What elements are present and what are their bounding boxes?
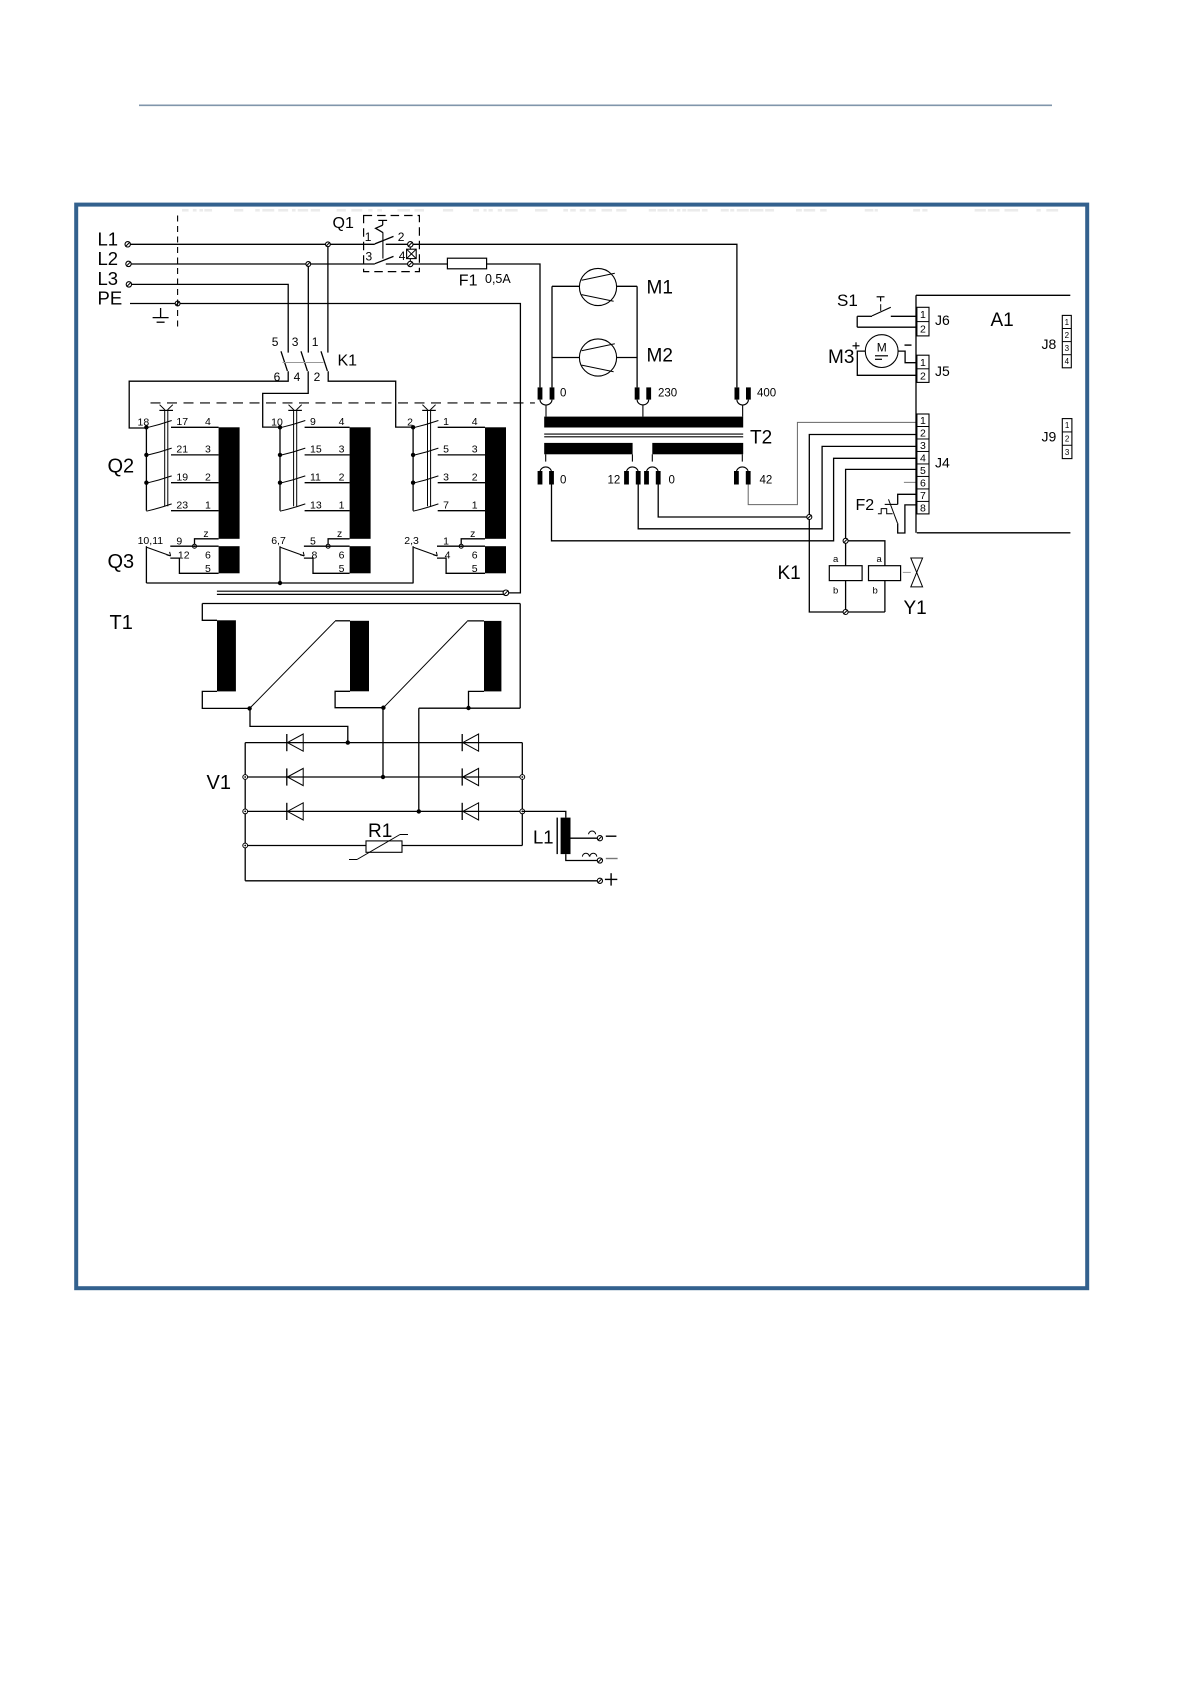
svg-text:8: 8 (920, 502, 926, 514)
R1 row wire (245, 845, 522, 847)
svg-text:23: 23 (176, 499, 188, 511)
svg-text:1: 1 (443, 416, 449, 428)
svg-text:5: 5 (920, 465, 926, 477)
terminal minus1 (597, 836, 602, 841)
svg-text:1: 1 (365, 230, 372, 244)
wire 12 to J4-3 (638, 446, 917, 528)
T1 frame bottom (419, 707, 520, 709)
wire M3 plus to J5-2 (857, 351, 917, 375)
F2 thermal element (878, 509, 893, 514)
Q2 bank3 tap 5-3 (411, 444, 485, 458)
svg-text:13: 13 (310, 499, 322, 511)
Q2 bank1 tap 17-4 (138, 416, 219, 430)
Q1 actuator (376, 220, 388, 258)
svg-text:1: 1 (205, 499, 211, 511)
svg-text:17: 17 (176, 416, 188, 428)
diode V1-6 (462, 803, 478, 820)
svg-text:2: 2 (920, 370, 926, 382)
M3 plus mark (853, 342, 860, 349)
inductor L1 (561, 818, 571, 855)
node 0b junction (807, 515, 812, 520)
node V1 row3 right (520, 809, 525, 814)
svg-text:5: 5 (272, 335, 279, 349)
svg-text:12: 12 (608, 475, 621, 487)
wire V1 to L1 (522, 811, 566, 817)
svg-text:3: 3 (1065, 344, 1070, 353)
node V1 row2 left (243, 775, 248, 780)
Q2 bank2 tap 15-3 (278, 444, 350, 458)
T2 primary plug 400 (735, 387, 777, 416)
svg-text:5: 5 (205, 563, 211, 575)
svg-text:PE: PE (98, 287, 123, 308)
T1 leg2 winding (335, 621, 383, 708)
Q2 bank3 shaft (422, 405, 436, 507)
svg-text:M: M (877, 341, 887, 355)
T1 leg3 winding (467, 621, 484, 708)
wire L1 tap minus1 (571, 837, 598, 839)
svg-text:L2: L2 (98, 248, 119, 269)
wire T1 leg2 to V1 (382, 708, 384, 777)
wire M1 left (552, 285, 579, 287)
svg-text:18: 18 (138, 416, 150, 428)
header rule (139, 104, 1052, 106)
node T1 leg2 (381, 706, 385, 710)
svg-text:J4: J4 (935, 455, 950, 471)
T2 primary plug 230 (635, 387, 677, 416)
wire J4-2 to coil return (809, 435, 917, 613)
connector J9 (1062, 419, 1072, 459)
node PE (175, 301, 180, 306)
svg-text:9: 9 (176, 535, 182, 547)
svg-text:4: 4 (920, 452, 926, 464)
svg-text:b: b (873, 586, 878, 597)
svg-text:3: 3 (920, 440, 926, 452)
S1 actuator (877, 297, 885, 311)
svg-text:2: 2 (1065, 331, 1070, 340)
terminal L3 (126, 282, 131, 287)
svg-text:1: 1 (472, 499, 478, 511)
motor M1 (579, 268, 616, 305)
Q3 bank1 tap 12 (170, 549, 218, 574)
diode V1-1 (287, 734, 303, 751)
node V1 row3 input (417, 809, 421, 813)
T2 secondary plug 0b (644, 454, 675, 486)
T2 secondary plug 42 (734, 454, 772, 486)
svg-text:z: z (337, 528, 342, 540)
wire F2 to J4-8 (898, 505, 917, 533)
Q3 bank3 z tap (459, 528, 485, 548)
wire PE (130, 304, 520, 593)
wire J4-7 to F2 (898, 494, 917, 504)
svg-text:a: a (877, 554, 883, 565)
Q2 linkage dashed (151, 402, 535, 404)
connector J8 (1062, 315, 1071, 367)
minus1 sign (606, 835, 617, 837)
ground (153, 308, 169, 322)
svg-text:3: 3 (339, 444, 345, 456)
svg-text:z: z (470, 528, 475, 540)
plus sign (605, 873, 617, 885)
wire L2 from Q1 to F1 (386, 263, 448, 265)
V1 left bus (244, 743, 246, 881)
svg-text:T2: T2 (750, 428, 772, 449)
svg-text:Q3: Q3 (108, 551, 135, 573)
diode V1-2 (287, 768, 303, 785)
svg-text:2: 2 (1065, 434, 1070, 443)
wire M2 left (552, 357, 579, 359)
Q1 terminal 4 (408, 261, 413, 266)
T1 frame right (519, 604, 521, 709)
motor M3 (865, 335, 898, 368)
wire K1-2 to Q2 bank3 (328, 371, 413, 427)
Q2 bank3 tap 7-1 (413, 499, 485, 511)
node V1 row3 left (243, 809, 248, 814)
svg-text:1: 1 (920, 415, 926, 427)
svg-text:2: 2 (920, 428, 926, 440)
T1 delta link 1-2 (250, 621, 336, 708)
svg-text:J8: J8 (1042, 336, 1057, 352)
svg-text:5: 5 (339, 563, 345, 575)
Q1 terminal 2 (408, 242, 413, 247)
svg-text:5: 5 (310, 535, 316, 547)
svg-text:V1: V1 (207, 772, 231, 794)
wire T1 leg1 to V1 (250, 708, 348, 742)
wire M branch left (551, 286, 553, 387)
wire L2 (131, 263, 375, 265)
svg-text:19: 19 (176, 471, 188, 483)
T2 primary winding (544, 417, 743, 428)
svg-text:1: 1 (312, 335, 319, 349)
svg-text:2,3: 2,3 (404, 535, 419, 547)
svg-text:T1: T1 (110, 612, 133, 634)
svg-text:2: 2 (398, 230, 405, 244)
connector J6 (917, 307, 929, 336)
node coil return (843, 610, 848, 615)
svg-text:3: 3 (472, 444, 478, 456)
wire L1 drop to K1 (327, 247, 329, 353)
svg-text:5: 5 (472, 563, 478, 575)
terminal plus (597, 878, 602, 883)
svg-text:z: z (203, 528, 208, 540)
svg-text:3: 3 (292, 335, 299, 349)
wire M2 right (617, 357, 638, 359)
svg-text:1: 1 (339, 499, 345, 511)
shield bus to PE (217, 591, 505, 594)
wire 0a to J4-4 (552, 458, 917, 541)
wire K1-6 to Q2 bank1 (129, 371, 288, 428)
svg-text:3: 3 (443, 471, 449, 483)
Q2 bank2 tap 13-1 (280, 499, 350, 511)
wire M1 right (617, 285, 638, 287)
Q3 bank1 z tap (193, 528, 219, 548)
Q3 bank1 selector (138, 535, 219, 583)
inductor L1 core line (556, 818, 558, 855)
terminal minus2 (597, 858, 602, 863)
svg-text:Y1: Y1 (904, 598, 927, 619)
svg-text:6: 6 (274, 370, 281, 384)
svg-text:L1: L1 (533, 827, 554, 848)
Q2 bank3 tap 1-4 (407, 416, 485, 430)
wire 0b to J4-2 (658, 485, 807, 518)
svg-text:F2: F2 (856, 497, 875, 514)
svg-text:9: 9 (310, 416, 316, 428)
svg-text:1: 1 (920, 357, 926, 369)
svg-text:11: 11 (310, 471, 321, 483)
svg-text:4: 4 (399, 249, 406, 263)
wire L2 drop to K1 (307, 266, 309, 352)
svg-text:F1: F1 (459, 273, 478, 290)
A1 left edge (915, 295, 917, 533)
svg-text:J5: J5 (935, 363, 950, 379)
svg-text:8: 8 (312, 549, 318, 561)
wire DC plus (245, 880, 597, 882)
svg-text:a: a (833, 554, 839, 565)
svg-text:4: 4 (205, 416, 211, 428)
breaker Q1 dashed box (364, 216, 420, 272)
svg-text:42: 42 (760, 475, 773, 487)
V1 right bus (521, 743, 523, 846)
T1 frame top (202, 603, 520, 605)
svg-text:3: 3 (1065, 448, 1070, 457)
T1 leg3 core (484, 621, 501, 692)
node T1 leg1 (247, 706, 251, 710)
wire M branch right (636, 286, 638, 387)
connector J5 (917, 355, 929, 382)
node Q3 common (278, 581, 282, 585)
Q2 bank1 shaft (159, 405, 173, 507)
svg-text:4: 4 (445, 549, 451, 561)
Q2 bank2 tap 9-4 (271, 416, 349, 430)
motor M2 (579, 339, 616, 376)
T2 secondary winding b (652, 443, 743, 454)
svg-text:1: 1 (443, 535, 449, 547)
svg-text:6: 6 (205, 549, 211, 561)
svg-text:L3: L3 (98, 268, 119, 289)
wire L1 (131, 243, 375, 245)
Q3 bank2 z tap (326, 528, 350, 548)
minus2 sign (606, 858, 618, 860)
wire coil feed to Y1 (848, 541, 885, 566)
Q3 bank1 core (219, 546, 240, 573)
svg-text:4: 4 (1065, 357, 1070, 366)
diode V1-5 (462, 768, 478, 785)
svg-text:1: 1 (1065, 318, 1070, 327)
svg-text:K1: K1 (338, 353, 358, 370)
wire K1 coil out (845, 581, 847, 612)
wire T1 leg3 to V1 (418, 708, 420, 811)
svg-text:2: 2 (339, 471, 345, 483)
S1 contact blade (872, 307, 891, 316)
svg-text:K1: K1 (778, 563, 801, 584)
Q2 bank1 tap 23-1 (146, 499, 218, 511)
node V1 row2 right (520, 775, 525, 780)
valve Y1 symbol (903, 558, 923, 587)
svg-text:S1: S1 (837, 291, 858, 310)
K1 contact 5-6 (272, 335, 288, 384)
Q3 bank3 tap 4 (437, 549, 485, 574)
svg-text:6,7: 6,7 (271, 535, 286, 547)
wire M3 minus to J5-1 (898, 351, 917, 363)
Q3 bank3 core (485, 546, 506, 573)
svg-text:6: 6 (920, 477, 926, 489)
svg-text:6: 6 (339, 549, 345, 561)
ripple mark 2 (582, 853, 596, 856)
coil K1 (829, 566, 862, 581)
node L2-K1 (306, 262, 311, 267)
svg-text:2: 2 (205, 471, 211, 483)
wire Q3 common (146, 582, 413, 584)
svg-text:J9: J9 (1042, 429, 1057, 445)
Q3 bank2 core (350, 546, 371, 573)
diode V1-3 (287, 803, 303, 820)
lamp in Q1 (407, 247, 417, 261)
Q3 bank2 tap 8 (304, 549, 350, 574)
Q2 bank2 selector bus (279, 427, 281, 510)
K1 contact 3-4 (292, 335, 308, 384)
svg-text:6: 6 (472, 549, 478, 561)
Q2 bank2 shaft (288, 405, 302, 507)
svg-text:4: 4 (339, 416, 345, 428)
ripple mark 1 (589, 831, 596, 834)
T1 delta link 2-3 (383, 621, 467, 707)
svg-text:2: 2 (472, 471, 478, 483)
svg-text:Q1: Q1 (333, 215, 354, 232)
wire F1 to T2 0 (487, 264, 540, 387)
T2 secondary plug 0a (538, 454, 567, 486)
svg-text:5: 5 (443, 444, 449, 456)
svg-text:400: 400 (757, 388, 776, 400)
svg-text:b: b (833, 586, 838, 597)
Q2 bank1 selector bus (145, 427, 147, 510)
svg-text:M1: M1 (647, 277, 673, 298)
wire L3 (131, 284, 288, 352)
svg-text:M2: M2 (647, 345, 673, 366)
svg-text:7: 7 (443, 499, 449, 511)
wire Y1 coil out (884, 581, 886, 612)
A1 bottom edge (917, 532, 1071, 534)
svg-text:7: 7 (920, 490, 926, 502)
connector J4 (917, 414, 929, 514)
T2 primary plug 0 (538, 387, 567, 416)
node T1 leg3 (466, 706, 470, 710)
wire return to Y1 (848, 611, 885, 613)
svg-text:230: 230 (658, 388, 677, 400)
svg-text:4: 4 (294, 370, 301, 384)
node L1-K1 (326, 242, 331, 247)
shield bus terminal (503, 590, 509, 596)
wire J4-5 to coils (846, 469, 917, 565)
node R1 left (243, 843, 248, 848)
A1 top edge (916, 294, 1070, 296)
node V1 row2 input (381, 775, 385, 779)
svg-text:3: 3 (205, 444, 211, 456)
terminal L2 (126, 261, 131, 266)
svg-text:L1: L1 (98, 229, 119, 250)
T2 core (544, 434, 743, 437)
node V1 row1 input (346, 740, 350, 744)
Q3 bank2 selector (271, 535, 349, 583)
Q2 bank1 tap 21-3 (144, 444, 218, 458)
V1 phase row 3 (245, 810, 522, 812)
fuse F1 (447, 258, 486, 269)
svg-text:A1: A1 (991, 310, 1014, 331)
svg-text:1: 1 (920, 309, 926, 321)
Q2 bank1 core (219, 427, 240, 539)
svg-text:M3: M3 (828, 347, 854, 368)
svg-text:Q2: Q2 (108, 456, 135, 478)
svg-text:R1: R1 (368, 821, 392, 842)
S1 wiring (857, 316, 917, 327)
wire L1 to T2 400 (386, 244, 737, 387)
svg-text:10,11: 10,11 (138, 535, 164, 547)
svg-text:12: 12 (178, 549, 190, 561)
svg-text:21: 21 (176, 444, 188, 456)
svg-text:0: 0 (669, 475, 675, 487)
Q1 contact 3-4 (375, 256, 394, 263)
Q2 bank2 tap 11-2 (278, 471, 350, 485)
page frame (76, 205, 1087, 1289)
coil Y1 (869, 566, 901, 581)
V1 phase row 2 (245, 776, 522, 778)
svg-text:0,5A: 0,5A (485, 272, 511, 286)
Q2 bank3 core (485, 427, 506, 539)
K1 linkage (283, 362, 324, 364)
svg-text:2: 2 (314, 370, 321, 384)
T1 leg2 core (350, 621, 369, 692)
stub J4-6 (904, 481, 917, 483)
F2 contact (885, 499, 898, 523)
Q2 bank1 tap 19-2 (144, 471, 218, 485)
scan artifact strip (182, 209, 1058, 212)
svg-text:2: 2 (920, 324, 926, 336)
resistor R1 (349, 835, 408, 860)
Q2 bank3 tap 3-2 (411, 471, 485, 485)
svg-text:4: 4 (472, 416, 478, 428)
diode V1-4 (462, 734, 478, 751)
boundary dashed line (177, 216, 179, 328)
Q1 contact 1-2 (375, 236, 394, 244)
svg-text:0: 0 (560, 388, 566, 400)
svg-text:1: 1 (1065, 421, 1070, 430)
terminal L1 (125, 242, 130, 247)
svg-text:2: 2 (407, 416, 413, 428)
Q2 bank3 selector bus (412, 427, 414, 510)
Q3 bank3 selector (404, 535, 485, 583)
V1 phase row 1 (245, 742, 522, 744)
T2 secondary plug 12 (608, 454, 641, 486)
wire L1 tap minus2 (566, 854, 597, 860)
svg-text:3: 3 (366, 250, 373, 264)
T1 leg1 core (217, 620, 236, 691)
K1 contact 1-2 (312, 335, 328, 384)
svg-text:15: 15 (310, 444, 322, 456)
wire 42 to J4-1 (748, 422, 917, 504)
T2 secondary winding a (544, 443, 632, 454)
svg-text:J6: J6 (935, 312, 950, 328)
svg-text:10: 10 (271, 416, 283, 428)
svg-text:0: 0 (560, 475, 566, 487)
M3 minus mark (905, 344, 912, 346)
Q2 bank2 core (350, 427, 371, 539)
node coil feed (843, 538, 848, 543)
T1 leg1 winding (202, 604, 249, 709)
wire K1-4 to Q2 bank2 (263, 371, 309, 427)
